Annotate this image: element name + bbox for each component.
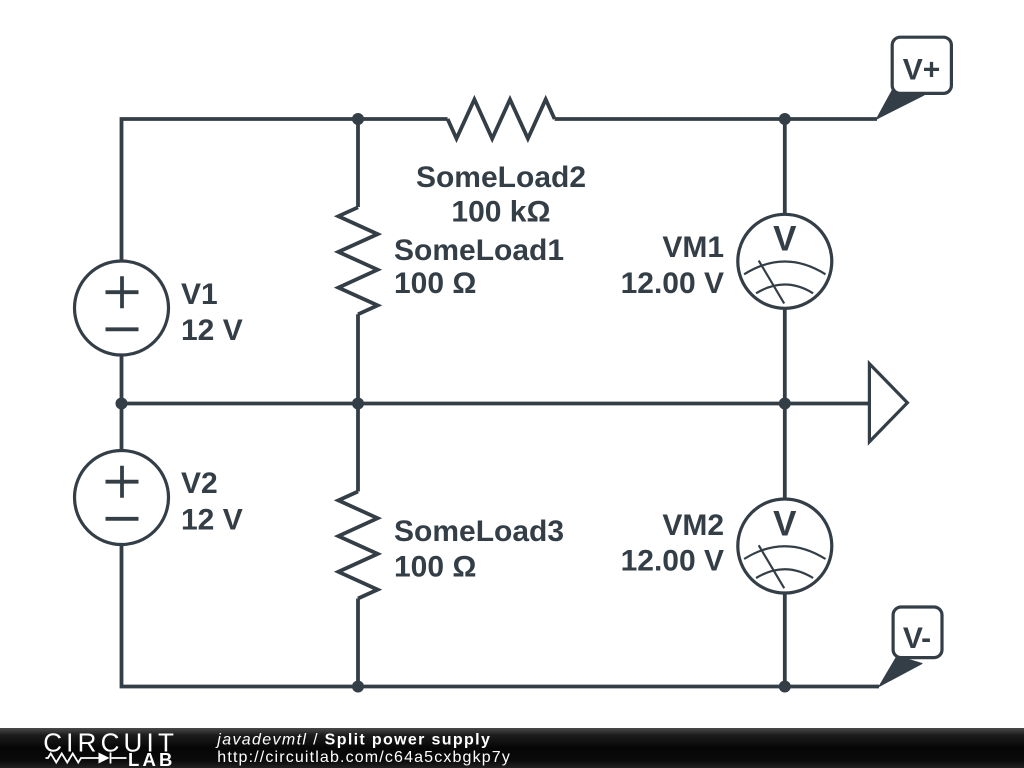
wire mid-column stub to bottom rail bbox=[356, 599, 360, 687]
footer bar bbox=[0, 728, 1024, 768]
wire top rail right of SomeLoad2 to V+ flag bbox=[555, 117, 877, 121]
label SomeLoad2 value bbox=[416, 161, 586, 229]
resistor SomeLoad1 zigzag bbox=[338, 207, 377, 314]
voltmeter VM1 bbox=[738, 214, 832, 308]
flag V- pointer bbox=[879, 656, 922, 687]
svg-text:VM1: VM1 bbox=[662, 231, 724, 264]
flag V+ pointer bbox=[877, 87, 925, 119]
label V2 value bbox=[181, 467, 243, 537]
wire top-left: V1 top to corner to top rail bbox=[122, 119, 448, 262]
footer logo resistor-diode glyph bbox=[46, 753, 127, 764]
label V1 value bbox=[181, 278, 243, 347]
flag output arrow bbox=[869, 364, 907, 442]
svg-text:100 Ω: 100 Ω bbox=[394, 267, 476, 300]
wire right column VM2 top stub bbox=[783, 404, 787, 500]
wire mid-column upper stub bbox=[356, 119, 360, 207]
svg-text:V-: V- bbox=[903, 622, 931, 655]
svg-text:V: V bbox=[773, 504, 797, 543]
node dot bottom mid bbox=[352, 681, 364, 693]
node dot bottom right bbox=[779, 681, 791, 693]
node dot mid right bbox=[779, 398, 791, 410]
label VM1 value bbox=[621, 231, 724, 300]
svg-text:V1: V1 bbox=[181, 278, 218, 311]
svg-text:V2: V2 bbox=[181, 467, 218, 500]
label SomeLoad3 value bbox=[394, 515, 564, 584]
label SomeLoad1 value bbox=[394, 234, 564, 300]
svg-text:javadevmtl / Split power suppl: javadevmtl / Split power supply bbox=[215, 732, 491, 749]
label VM2 value bbox=[621, 509, 724, 578]
svg-text:12 V: 12 V bbox=[181, 314, 243, 347]
svg-text:V+: V+ bbox=[903, 54, 941, 87]
svg-text:V: V bbox=[773, 220, 797, 259]
node dot top mid bbox=[352, 113, 364, 125]
node dot top right bbox=[779, 113, 791, 125]
svg-text:VM2: VM2 bbox=[662, 509, 724, 542]
svg-text:SomeLoad2: SomeLoad2 bbox=[416, 161, 586, 194]
resistor SomeLoad3 zigzag bbox=[338, 492, 377, 599]
wire mid rail bbox=[122, 402, 870, 406]
wire right column top stub bbox=[783, 119, 787, 215]
voltmeter VM2 bbox=[738, 499, 832, 593]
svg-text:12.00 V: 12.00 V bbox=[621, 545, 724, 578]
node dot mid left bbox=[116, 398, 128, 410]
wire V1 bottom stub bbox=[120, 354, 124, 403]
svg-text:12 V: 12 V bbox=[181, 504, 243, 537]
node dot mid center bbox=[352, 398, 364, 410]
wire mid-column lower stub to mid rail bbox=[356, 314, 360, 403]
svg-text:100 Ω: 100 Ω bbox=[394, 551, 476, 584]
voltage source V2 bbox=[75, 451, 169, 545]
svg-text:SomeLoad1: SomeLoad1 bbox=[394, 234, 564, 267]
svg-text:LAB: LAB bbox=[128, 749, 176, 768]
wire mid-column stub below mid rail bbox=[356, 404, 360, 492]
wire left column V2 bottom to bottom rail corner bbox=[122, 544, 359, 687]
svg-text:http://circuitlab.com/c64a5cxb: http://circuitlab.com/c64a5cxbgkp7y bbox=[217, 749, 511, 766]
flag V+ box bbox=[892, 37, 951, 93]
svg-text:100 kΩ: 100 kΩ bbox=[451, 196, 550, 229]
wire VM1 bottom stub bbox=[783, 308, 787, 404]
wire VM2 bottom stub bbox=[783, 592, 787, 686]
footer logo diode triangle bbox=[99, 753, 110, 764]
wire bottom rail bbox=[358, 685, 879, 689]
wire left column V2 top stub bbox=[120, 404, 124, 452]
resistor SomeLoad2 zigzag bbox=[448, 99, 555, 138]
svg-text:12.00 V: 12.00 V bbox=[621, 267, 724, 300]
voltage source V1 bbox=[75, 261, 169, 355]
svg-text:SomeLoad3: SomeLoad3 bbox=[394, 515, 564, 548]
flag V- box bbox=[893, 607, 942, 658]
